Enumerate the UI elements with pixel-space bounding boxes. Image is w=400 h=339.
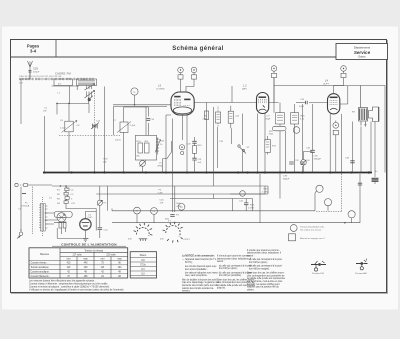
variable capacitor C2 tuning gang [85,84,95,91]
wire left down [20,187,22,232]
wire x213.5 [213,107,215,186]
svg-text:jusqu'ici.: jusqu'ici. [216,288,226,290]
node [134,104,136,106]
wire x146 [124,107,149,135]
svg-text:Position FM: Position FM [312,272,324,275]
wire x361 [360,127,362,173]
dashed AVC right [341,174,343,211]
wire det out [309,102,328,104]
wire x312.5 [312,104,314,173]
FM unit loop [135,135,156,160]
wire x172.5 pair [173,173,175,213]
wire x166 V1 pin [166,115,171,173]
circled cap 14 [293,127,300,134]
position AM symbol [356,259,368,270]
svg-text:tion FM (en gras) ;: tion FM (en gras) ; [249,261,268,264]
wire speaker [361,86,366,127]
node [65,185,67,187]
capacitor C24 [98,228,103,230]
svg-text:Mesures: Mesures [40,253,50,256]
svg-text:a) celle qui correspond à: a) celle qui correspond à la posi- [249,258,282,261]
legend [289,225,298,241]
svg-text:0.15M: 0.15M [262,191,268,193]
resistor R7 [63,222,66,228]
meter circle TC [131,88,138,95]
wire x231.5 [231,128,233,144]
svg-text:1nF: 1nF [43,110,47,112]
resistor ladder R1-R4 [66,186,68,189]
coil L1 box B.I. [54,79,73,86]
circled test point B1 [324,199,331,206]
svg-text:Courant réseau et filaments: Courant réseau et filaments : ampèremètr… [29,282,108,285]
wire x107.5 [107,186,109,211]
ground GND1 [82,238,88,241]
svg-text:mas et le dépannage, la g: mas et le dépannage, la gamme des [182,281,220,284]
lower-left section [15,183,268,241]
svg-text:savoir :: savoir : [217,260,225,263]
svg-text:Département: Département [354,46,370,50]
wire x371 [370,122,372,173]
svg-text:tion AM (en maigre).: tion AM (en maigre). [249,268,270,271]
wire y85.5 right [274,86,385,173]
svg-text:0.1M: 0.1M [177,206,182,208]
switch bank S1 [40,204,42,232]
trimmer CV5 [333,122,339,128]
svg-text:a) celle qui correspond à: a) celle qui correspond à la posi- [219,264,252,267]
svg-text:b) celle qui correspond à: b) celle qui correspond à la posi- [249,265,282,268]
svg-text:470pF: 470pF [33,71,40,73]
svg-text:1nF: 1nF [160,202,164,204]
svg-text:220 volts: 220 volts [106,254,116,257]
wire antenna down [21,72,30,79]
socket diagram V5 base [163,222,183,243]
wire x44 [43,116,45,173]
svg-text:clés correspondent aux pote: clés correspondent aux potentiels de [247,274,285,277]
coil box L8 [276,113,285,124]
plug symbol [88,97,91,101]
right logo box [336,44,388,60]
svg-text:Mesuré au voyage en m.º.: Mesuré au voyage en m.º. [300,237,326,240]
capacitor C28 on x148 [147,119,151,121]
wire x182.5 V1 bottom pin [182,118,184,140]
wire osc to switch [45,213,58,224]
diode cluster D1 [265,140,271,153]
variable capacitor C5 [91,123,99,130]
svg-text:L 2: L 2 [243,84,247,88]
wire net4 y210.8 (AVC) [112,193,315,211]
wire net1 y186 [52,186,268,194]
trimmer CV2 [191,67,197,73]
svg-text:43V: 43V [128,239,132,241]
wire L6 [85,209,96,231]
fuse F1 [22,193,26,195]
svg-text:Courant anodique .: Courant anodique . [31,270,51,273]
socket diagram V4 base [134,223,153,241]
variable capacitor C3 tuning gang [85,90,95,98]
trimmer CV4 [341,66,347,72]
potentiometer P2 [97,200,102,205]
legend square symbol [289,234,296,241]
svg-text:Tension anodique .: Tension anodique . [31,267,51,269]
wire x375 [374,122,376,178]
capacitor C28 [192,141,196,143]
wire V3 to transformer [340,86,348,104]
text column 2 [216,255,256,290]
svg-text:Afin de faciliter la lectu: Afin de faciliter la lecture des sché- [182,278,218,281]
circled test point 1 [316,185,323,192]
padder C7 [120,122,128,133]
svg-text:savoir :: savoir : [247,255,255,258]
svg-text:2-7pF: 2-7pF [60,128,66,130]
wire grid line to V1 [57,87,171,173]
svg-text:Schéma général: Schéma général [172,46,224,52]
svg-text:50pF: 50pF [266,118,272,120]
svg-text:Les mesures doivent être e: Les mesures doivent être effectuées avec… [29,279,96,282]
svg-text:B.T.: B.T. [58,84,62,86]
svg-text:Dans tous les cas, les ch: Dans tous les cas, les chiffres encer- [247,272,285,275]
wire IF line V1-V2 [194,86,256,103]
svg-text:— l'appareil étant branché: — l'appareil étant branché (117 V, [182,258,217,261]
svg-text:0.27M: 0.27M [248,207,254,209]
svg-text:tion FM : les autres chif: tion FM : les autres chiffres sont [247,283,280,286]
rheostat R16 [156,138,159,155]
wire x187 [186,115,188,173]
svg-text:(C15): (C15) [115,140,121,142]
wire net3 y198.5 [170,199,253,211]
svg-text:cations des circuits qu'ell: cations des circuits qu'elles tra- [182,287,214,290]
svg-text:Divers: Divers [140,254,147,257]
title bar [11,56,387,58]
main wires top [57,86,385,173]
svg-text:sur le schéma, c'est-à-dire: sur le schéma, c'est-à-dire en posi- [247,280,283,283]
vertical wires mid [44,78,378,186]
svg-text:Service: Service [354,50,371,55]
wire x265 [264,114,266,173]
svg-text:valables pour la position: valables pour la position AM du [247,286,280,289]
capacitor C34 [300,162,305,164]
tube V2 EF89 [257,93,269,114]
wire bottom [57,228,82,238]
svg-text:TC: TC [133,92,136,94]
svg-text:rées, sauf exceptions.: rées, sauf exceptions. [185,274,208,277]
svg-text:57,5v: 57,5v [140,265,146,267]
wire x260 [259,174,261,223]
wire V2 out [269,86,279,103]
wire x302.5 [302,104,304,173]
wire x257.5 V2 pin [257,114,259,173]
resistor R12 [204,111,208,120]
capacitor C43 [244,203,248,205]
wire x341.5 [341,114,343,173]
svg-text:(FM): (FM) [158,166,163,168]
svg-text:UL/FT: UL/FT [323,83,330,85]
svg-text:V efficace en tension alt.: V efficace en tension alt. s'appliquant … [29,288,124,291]
text column 1 [182,255,220,293]
wire x206.5 [206,103,208,173]
svg-text:10.7MHz: 10.7MHz [156,88,165,90]
coil chain (cadre AM/FM) [19,78,93,80]
shield dashed [32,187,34,235]
svg-text:vée valeur à la masse: vée valeur à la masse [300,228,322,231]
svg-text:La NOTICE a été commencée: La NOTICE a été commencée : [182,255,215,258]
wire x242.7 [242,114,244,173]
svg-text:1700mA: 1700mA [21,204,30,207]
svg-text:versent.: versent. [182,290,191,293]
svg-text:5nF: 5nF [198,162,202,164]
triode V4 osc [57,213,66,222]
wire x330.2 V3 pin [329,114,331,173]
svg-text:C29: C29 [33,67,38,71]
mains lead [19,232,22,235]
svg-text:Position AM: Position AM [355,272,367,275]
svg-text:les valeurs indiquées sont: les valeurs indiquées sont mesu- [185,271,219,274]
svg-text:2-7pF: 2-7pF [130,125,136,127]
trimmer CV1 [178,67,184,73]
wire x71.5 [68,103,70,172]
capacitor C41 [170,215,174,217]
resistor box R5 [216,112,221,123]
svg-text:+225 V: +225 V [183,239,191,241]
capacitor C46 (block) [372,178,379,181]
node [344,222,346,224]
transformer T-OUT + speaker HP [359,86,379,127]
svg-text:2.2M: 2.2M [158,192,163,194]
svg-text:Courant et tension anodique: Courant et tension anodiques : contrôleu… [29,285,110,288]
antenna A1 [28,61,33,78]
svg-text:47pF: 47pF [299,106,305,108]
svg-text:tion AM (en pointillés).: tion AM (en pointillés). [219,274,242,277]
svg-text:Courant réseau . .: Courant réseau . . [31,261,50,264]
thermistor [273,126,287,131]
svg-text:Tension du réseau: Tension du réseau [84,249,103,252]
svg-text:CHO: CHO [88,217,93,219]
svg-text:HP: HP [364,125,368,127]
circled test point A1 [348,211,355,218]
svg-text:660pF: 660pF [283,179,290,181]
svg-text:éléments des circuits porte: éléments des circuits porte les indi- [182,284,218,287]
capacitor C45 [358,183,362,185]
svg-text:clavier.: clavier. [247,288,255,291]
wire gang to FM unit, dashed mechanical link [94,91,96,124]
wire V1 top to trimmers [181,87,195,93]
rectifier V5 [80,219,91,230]
node [60,185,62,187]
capacitor box C22 [228,111,233,123]
svg-text:la palette telle qu'elle e: la palette telle qu'elle est représentée [247,277,286,280]
junction dots on bus [43,171,353,173]
potentiometer P1 [140,161,146,167]
svg-text:44V: 44V [160,239,164,241]
node dot [68,103,70,105]
capacitor C29 [29,71,32,73]
svg-text:tion FM (en gras) ;: tion FM (en gras) ; [219,267,238,270]
capacitor C31 [192,158,196,160]
capacitor C13 [92,125,97,127]
svg-text:tations portent deux indica: tations portent deux indications, il [247,252,281,255]
tube V1 ECH81 [171,92,194,118]
jack contacts [179,145,184,150]
resistor box R25 [291,113,299,124]
svg-text:Il s'ensuit que toutes les: Il s'ensuit que toutes les commu- [217,255,251,258]
svg-text:Export: Export [359,56,366,59]
wire x217.7 [217,127,219,168]
wire net5 y222.7 [54,174,360,223]
footnotes under table [29,279,124,291]
svg-text:117 volts: 117 volts [72,254,82,257]
svg-text:les circuits d'accord ayant: les circuits d'accord ayant reçu [185,265,217,268]
circled test point 5 [240,191,246,197]
svg-text:leur accord préalable ;: leur accord préalable ; [185,268,208,271]
svg-text:Courant filaments .: Courant filaments . [31,275,51,278]
svg-text:OSC: OSC [81,79,86,81]
resistor R11 [144,143,149,153]
ground bus (thick) [43,171,372,174]
capacitor C16 [306,101,308,104]
trimmer CV3 [271,66,277,72]
wire gang down to bus [94,129,96,173]
padder C6 [65,121,73,132]
wire x336 trimmer5 [335,121,337,173]
resistor R10 [138,143,143,153]
resistor R6 [59,222,62,228]
wire from box B.I. down [52,86,80,105]
oscillator coil loop L7 [54,211,72,217]
svg-text:C30 L20 C9 L21 C10 L22: C30 L20 C9 L21 C10 L22 C11 L23 C12 L24 [19,76,62,78]
potentiometer P4 [301,160,307,166]
wire PU line [28,184,53,186]
wire left drop [20,79,22,124]
capacitor C33 [289,162,294,164]
switch S2 [238,145,240,147]
wire V3 top [334,86,344,94]
capacitor C35 [310,150,315,152]
svg-text:CADRE FM: CADRE FM [55,72,71,76]
svg-text:tations portent deux indica: tations portent deux indications, il [217,257,251,260]
mid components [59,88,355,173]
legend circle symbol [290,225,297,232]
position FM symbol [311,261,326,271]
capacitor C36 [350,161,354,163]
svg-text:50 Hz) ;: 50 Hz) ; [185,262,193,264]
phono jack PU [15,183,18,186]
wire x123.6 padder branch [123,107,125,173]
resistor R13 [192,146,196,154]
svg-text:(MF): (MF) [242,88,247,90]
lower-right network [54,173,362,243]
wire x280 [279,174,281,199]
svg-text:CONTROLE DE L'ALIMENTATION: CONTROLE DE L'ALIMENTATION [61,242,117,246]
wire net2 y194 [96,186,265,199]
wire x352.5 [352,122,354,173]
svg-text:Il résulte que toutes les: Il résulte que toutes les commu- [247,249,280,252]
svg-text:3300pF: 3300pF [314,158,322,160]
coil L2 box osc [77,79,97,86]
dashed link [59,135,120,137]
text column 3 [247,249,286,292]
svg-text:Tension d'oscillation rele-: Tension d'oscillation rele- [300,226,325,229]
tube V3 EABC80 [328,94,340,114]
wire x172.7 [172,119,174,173]
svg-text:3-4: 3-4 [30,49,37,54]
wire x274 [273,78,275,113]
wire x285 [285,131,287,173]
